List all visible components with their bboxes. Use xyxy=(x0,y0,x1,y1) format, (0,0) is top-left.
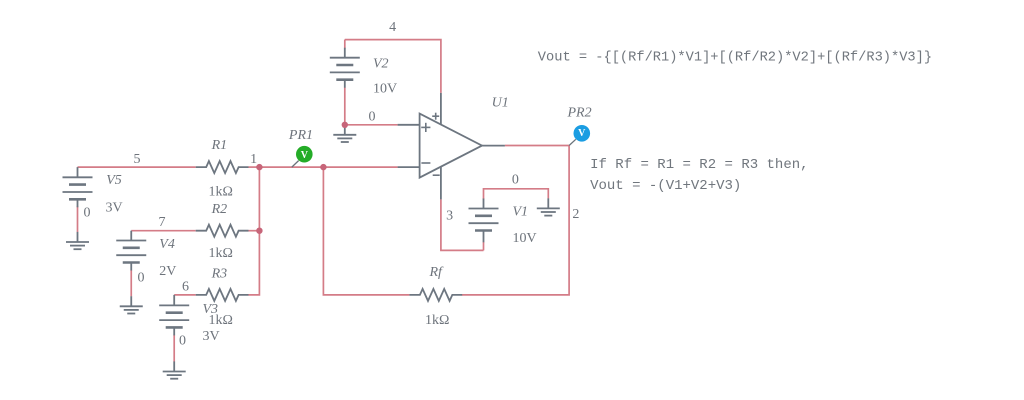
svg-text:V1: V1 xyxy=(513,205,529,220)
resistor R3 xyxy=(196,289,249,301)
svg-text:1kΩ: 1kΩ xyxy=(209,246,233,261)
ground (V4) xyxy=(120,296,143,313)
svg-text:3V: 3V xyxy=(203,329,220,344)
svg-text:PR1: PR1 xyxy=(288,128,313,143)
wire V2 bottom to node 0 xyxy=(344,88,346,125)
svg-text:3: 3 xyxy=(446,209,453,224)
svg-text:If Rf = R1 = R2 = R3 then,: If Rf = R1 = R2 = R3 then, xyxy=(590,157,808,173)
op-amp U1 xyxy=(398,93,505,199)
svg-text:2: 2 xyxy=(572,207,579,222)
junction node 1 xyxy=(256,164,262,170)
svg-text:0: 0 xyxy=(138,271,145,286)
ground (node 0 under V2) xyxy=(333,125,356,142)
wire feedback left vertical to Rf xyxy=(323,167,409,295)
wire R1 to node 1 xyxy=(249,166,260,168)
ground (V3) xyxy=(163,361,186,378)
probe PR1 xyxy=(292,146,313,167)
svg-text:1kΩ: 1kΩ xyxy=(209,184,233,199)
svg-text:R3: R3 xyxy=(211,266,228,281)
wire node 0 to op-amp non-inverting input xyxy=(345,124,398,126)
svg-text:1: 1 xyxy=(250,152,257,167)
junction node 0 (V2/ground/op-amp) xyxy=(342,122,348,128)
svg-text:V: V xyxy=(301,150,309,161)
resistor Rf xyxy=(409,289,462,301)
wire vertical node1 down to R3 xyxy=(249,167,260,295)
wire V4 bottom to ground xyxy=(130,270,132,296)
wire node 1 to op-amp inverting input xyxy=(259,166,397,168)
svg-text:0: 0 xyxy=(512,172,519,187)
svg-text:7: 7 xyxy=(159,215,166,230)
svg-text:V: V xyxy=(578,128,586,139)
svg-text:5: 5 xyxy=(134,152,141,167)
wire R2 to vertical xyxy=(249,230,260,232)
svg-text:PR2: PR2 xyxy=(567,106,592,121)
svg-text:2V: 2V xyxy=(159,264,176,279)
wire V3 bottom to ground xyxy=(173,335,175,362)
svg-text:R2: R2 xyxy=(211,202,228,217)
battery V1 xyxy=(469,199,499,243)
wire V5 bottom to ground xyxy=(77,206,79,232)
wire V1 bottom xyxy=(483,242,485,251)
wire net 7 (V4 to R2) xyxy=(131,230,195,232)
ground (node 0 right of V1) xyxy=(537,198,560,215)
svg-text:1kΩ: 1kΩ xyxy=(425,313,449,328)
ground (V5) xyxy=(66,232,89,249)
junction feedback tap xyxy=(320,164,326,170)
battery V2 xyxy=(330,48,360,88)
battery V5 xyxy=(63,167,93,207)
svg-text:4: 4 xyxy=(389,20,396,35)
wire net 4 (V2 to op-amp V+) xyxy=(345,40,441,93)
svg-text:Vout = -(V1+V2+V3): Vout = -(V1+V2+V3) xyxy=(590,178,741,194)
svg-text:V2: V2 xyxy=(373,57,389,72)
probe PR2 xyxy=(569,125,590,146)
resistor R1 xyxy=(196,161,249,173)
svg-text:6: 6 xyxy=(182,279,189,294)
svg-text:U1: U1 xyxy=(492,96,509,111)
resistor R2 xyxy=(196,225,249,237)
junction R2 tap xyxy=(256,228,262,234)
svg-text:V5: V5 xyxy=(106,173,122,188)
svg-text:V4: V4 xyxy=(159,237,175,252)
wire net 5 (V5 to R1) xyxy=(78,166,196,168)
svg-text:10V: 10V xyxy=(373,82,397,97)
wire Rf to output vertical xyxy=(462,146,569,295)
battery V4 xyxy=(116,231,146,271)
svg-text:0: 0 xyxy=(84,206,91,221)
wire net 3 (op-amp V- to V1) xyxy=(441,199,484,250)
wire op-amp output xyxy=(505,145,569,147)
wire V1 top to net 0 xyxy=(484,189,549,200)
wire net 6 (V3 to R3) xyxy=(174,294,196,296)
svg-text:R1: R1 xyxy=(211,138,228,153)
svg-text:0: 0 xyxy=(369,110,376,125)
svg-text:Rf: Rf xyxy=(429,265,445,280)
svg-text:3V: 3V xyxy=(106,201,123,216)
svg-text:Vout = -{[(Rf/R1)*V1]+[(Rf/R2): Vout = -{[(Rf/R1)*V1]+[(Rf/R2)*V2]+[(Rf/… xyxy=(538,50,932,65)
svg-text:0: 0 xyxy=(179,334,186,349)
wire V2 top stub xyxy=(344,40,346,49)
svg-text:1kΩ: 1kΩ xyxy=(209,313,233,328)
battery V3 xyxy=(159,295,189,336)
svg-text:10V: 10V xyxy=(513,231,537,246)
